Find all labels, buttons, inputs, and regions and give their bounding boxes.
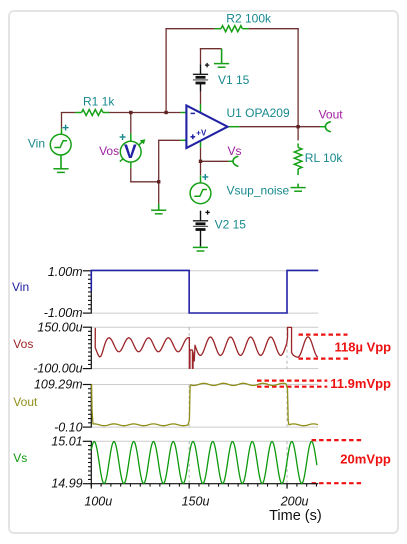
svg-text:Vs: Vs [13,451,27,465]
svg-text:Vin: Vin [28,136,45,150]
svg-text:Vout: Vout [13,395,38,409]
svg-text:+V: +V [196,129,207,138]
svg-text:RL 10k: RL 10k [305,151,344,165]
svg-text:-0.10: -0.10 [54,420,83,434]
svg-text:R2 100k: R2 100k [226,11,272,25]
svg-text:-1.00m: -1.00m [44,306,83,320]
svg-text:Vs: Vs [228,144,242,158]
svg-text:Vos: Vos [99,144,119,158]
svg-text:20mVpp: 20mVpp [340,452,391,467]
svg-text:V: V [124,142,137,163]
svg-text:V2 15: V2 15 [215,218,247,232]
svg-text:109.29m: 109.29m [34,378,83,392]
svg-text:14.99: 14.99 [51,477,82,491]
svg-text:Time (s): Time (s) [269,508,322,524]
svg-text:150.00u: 150.00u [37,320,82,334]
svg-text:200u: 200u [280,495,309,509]
svg-text:Vsup_noise: Vsup_noise [227,183,290,197]
svg-text:150u: 150u [182,495,210,509]
svg-text:-100.00u: -100.00u [33,362,82,376]
svg-text:100u: 100u [84,495,112,509]
svg-text:Vos: Vos [13,337,33,351]
svg-text:11.9mVpp: 11.9mVpp [330,376,391,391]
svg-text:V1 15: V1 15 [218,73,250,87]
svg-text:118µ Vpp: 118µ Vpp [335,340,392,355]
svg-text:Vin: Vin [12,280,29,294]
svg-text:U1 OPA209: U1 OPA209 [227,106,290,120]
svg-text:1.00m: 1.00m [48,265,83,279]
svg-text:Vout: Vout [319,107,344,121]
svg-text:R1 1k: R1 1k [83,94,115,108]
svg-text:15.01: 15.01 [51,435,82,449]
